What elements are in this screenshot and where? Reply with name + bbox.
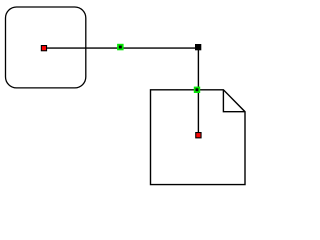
wire: vertical connector segment [197, 47, 199, 135]
handle: red endpoint in document shape [195, 132, 201, 138]
node B fold crease lines [223, 90, 245, 112]
node A: rounded rectangle shape [6, 7, 86, 88]
handle: red endpoint in rounded rectangle [41, 45, 47, 51]
handle: green midpoint on document top edge [194, 87, 200, 93]
node B: document/note shape outline [151, 90, 246, 185]
handle: green midpoint on horizontal segment [117, 44, 124, 51]
wire: horizontal connector segment [44, 47, 198, 49]
handle: black corner vertex [195, 44, 201, 50]
